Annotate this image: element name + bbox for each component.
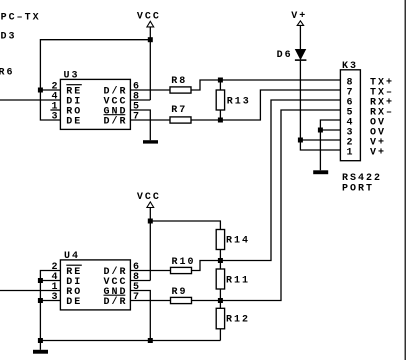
svg-text:DE: DE	[66, 297, 82, 308]
pin number 1	[52, 102, 60, 113]
svg-text:U3: U3	[64, 70, 80, 81]
label U3	[64, 70, 80, 81]
svg-text:V+: V+	[291, 11, 307, 22]
junction U4 DI branch	[38, 278, 43, 283]
pin name D/R pin7	[104, 115, 128, 127]
wire K3 pin 4 OV to ground	[320, 120, 340, 170]
junction R14/R11 node	[218, 258, 223, 263]
pin number 3	[52, 112, 60, 123]
junction R11/R12 node	[218, 298, 223, 303]
junction OV pin3 branch	[318, 128, 323, 133]
wire U4 pin 3 branch	[40, 300, 60, 302]
VCC symbol (lower)	[147, 202, 154, 208]
junction ground rail center	[148, 338, 153, 343]
svg-text:R9: R9	[172, 287, 188, 298]
svg-text:R6: R6	[0, 67, 15, 78]
junction VCC lower node	[148, 219, 153, 224]
label K3	[342, 61, 358, 72]
K3 pin number 1	[347, 147, 355, 158]
pin name RE	[66, 86, 82, 97]
K3 pin label TX–	[370, 87, 394, 98]
svg-text:3: 3	[52, 112, 60, 123]
overline D/R pin7 (U4)	[104, 294, 126, 296]
junction VCC/RE-DE node	[148, 37, 153, 42]
junction TX- / R13 bottom	[218, 118, 223, 123]
pin name RE (U4)	[66, 267, 82, 278]
label RS422	[342, 173, 382, 184]
resistor R8	[170, 87, 191, 93]
wire R8 to TX+ node and K3 pin 8	[191, 80, 340, 90]
wire U4 pin 6 to R10	[130, 270, 170, 272]
wire R14 bottom to R11 top	[219, 250, 221, 270]
svg-text:3: 3	[52, 292, 60, 303]
label R10	[172, 257, 196, 268]
pin number 3 (U4)	[52, 292, 60, 303]
label R13	[227, 97, 251, 108]
wire V+ to D6 anode	[299, 25, 301, 49]
pin name D/R pin6 (U4)	[104, 266, 128, 278]
junction TX+ / R13 top	[218, 78, 223, 83]
pin name D/R pin6	[104, 85, 128, 97]
pin name DI (U4)	[66, 277, 82, 288]
pin name GND pin5	[104, 106, 128, 117]
pin name D/R pin7 (U4)	[104, 296, 128, 308]
junction U4 DE branch	[38, 298, 43, 303]
svg-text:PC–TX: PC–TX	[1, 12, 41, 23]
K3 pin label RX–	[370, 107, 394, 118]
K3 pin label OV	[370, 117, 386, 128]
pin number 5 (U4)	[133, 282, 141, 293]
V+ symbol	[297, 21, 303, 26]
svg-text:V+: V+	[370, 147, 386, 158]
svg-text:7: 7	[133, 292, 141, 303]
schematic frame border (right edge)	[405, 0, 406, 360]
wire RX- from lower R11/R12 node to K3 pin 5	[220, 110, 340, 301]
net label PC-TX	[1, 12, 41, 23]
VCC label (lower)	[137, 192, 161, 203]
junction ground rail left	[38, 338, 43, 343]
pin name DE (U4)	[66, 297, 82, 308]
label R9	[172, 287, 188, 298]
label R12	[226, 315, 250, 326]
K3 pin label V+	[370, 147, 386, 158]
pin name GND pin5 (U4)	[104, 287, 128, 298]
pin number 2 (U4)	[52, 262, 60, 273]
wire U4 pin 4 branch	[40, 280, 60, 282]
svg-text:VCC: VCC	[137, 11, 161, 22]
wire VCC lower rail down to U4 pin 8	[149, 208, 151, 281]
V+ label	[291, 11, 307, 22]
net label R6	[0, 67, 15, 78]
resistor R14	[216, 230, 224, 250]
pin number 4 (U4)	[52, 272, 60, 283]
svg-text:D/R: D/R	[104, 296, 128, 308]
wire RE branch to U3 pin 2	[40, 89, 60, 91]
wire R9 to R11/R12 node	[192, 300, 221, 302]
svg-text:R10: R10	[172, 257, 196, 268]
wire U4 pin 8 VCC stub	[130, 280, 150, 282]
overline RE (U4)	[66, 264, 82, 266]
label PORT	[342, 184, 374, 195]
wire R13 top stub	[219, 80, 221, 90]
label R8	[171, 76, 187, 87]
K3 pin label V+	[370, 137, 386, 148]
wire R11 bottom to R12 top	[219, 289, 221, 308]
pin name DE	[66, 116, 82, 127]
K3 pin number 3	[347, 127, 355, 138]
svg-text:R13: R13	[227, 97, 251, 108]
pin number 5	[133, 102, 141, 113]
wire U3 pin 5 to ground	[130, 110, 150, 140]
svg-text:R7: R7	[171, 105, 187, 116]
K3 pin number 6	[347, 97, 355, 108]
connector K3	[340, 70, 360, 161]
pin name RO	[66, 106, 82, 117]
pin name RO (U4)	[66, 287, 82, 298]
wire U3 pin 1 RO stub	[50, 109, 60, 111]
wire U4 RE/DI/DE tie-down rail	[40, 271, 60, 341]
ground symbol below U3	[143, 140, 158, 143]
wire stub to ground symbol	[39, 341, 41, 350]
junction V+ pin2 branch	[298, 138, 303, 143]
VCC label (top)	[137, 11, 161, 22]
wire U4 pin 5 to ground rail	[130, 291, 150, 341]
wire U3 pin 8 VCC stub	[130, 99, 150, 101]
K3 pin label TX+	[370, 77, 394, 88]
pin number 7 (U4)	[133, 292, 141, 303]
label R11	[226, 276, 250, 287]
op-amp U3 (RS485 transceiver) body	[60, 79, 130, 129]
label D6	[277, 50, 293, 61]
label R14	[226, 236, 250, 247]
diode D6	[295, 49, 307, 60]
wire VCC top rail down to U3 pin 8	[149, 27, 151, 100]
pin name DI	[66, 96, 82, 107]
svg-text:PORT: PORT	[342, 184, 374, 195]
wire DI input from left edge to U3 pin 4	[0, 99, 60, 101]
wire U3 pin 6 to R8	[130, 89, 170, 91]
pin name VCC pin8 (U4)	[104, 277, 128, 288]
label U4	[64, 251, 80, 262]
svg-text:R8: R8	[171, 76, 187, 87]
wire VCC node to RE/DE of U3	[40, 40, 150, 120]
wire R7 to TX- and K3 pin 7	[191, 90, 340, 120]
K3 pin number 2	[347, 137, 355, 148]
label R7	[171, 105, 187, 116]
resistor R12	[216, 308, 224, 329]
K3 pin number 7	[347, 87, 355, 98]
wire R13 bottom stub	[219, 110, 221, 120]
pin number 8 (U4)	[133, 272, 141, 283]
ground symbol for 0V pins	[313, 170, 328, 174]
junction RE branch	[38, 88, 43, 93]
wire U4 pin 7 to R9	[130, 300, 170, 302]
svg-text:D6: D6	[277, 50, 293, 61]
pin number 6	[133, 82, 141, 93]
wire V+ branch to K3 pin 2	[300, 139, 340, 141]
wire D6 cathode down to V+ pins of K3	[300, 61, 340, 150]
wire U4 pin 1 RO from left edge	[0, 290, 60, 292]
resistor R11	[216, 269, 224, 289]
pin number 1 (U4)	[52, 282, 60, 293]
pin number 2	[52, 82, 60, 93]
pin number 4	[52, 92, 60, 103]
wire R10 to R14/R11 node	[192, 261, 221, 271]
pin number 8	[133, 92, 141, 103]
pin name VCC pin8	[104, 96, 128, 107]
K3 pin number 5	[347, 107, 355, 118]
svg-text:DE: DE	[66, 116, 82, 127]
overline RE	[66, 84, 82, 86]
K3 pin label OV	[370, 127, 386, 138]
resistor R9	[171, 297, 192, 303]
resistor R13	[216, 90, 224, 110]
svg-text:R12: R12	[226, 315, 250, 326]
wire VCC node to R14 top	[150, 221, 220, 230]
svg-text:R14: R14	[226, 236, 250, 247]
svg-text:7: 7	[133, 112, 141, 123]
wire ground rail	[40, 340, 220, 342]
svg-text:U4: U4	[64, 251, 80, 262]
svg-text:1: 1	[347, 147, 355, 158]
ground symbol bottom left	[33, 350, 48, 354]
pin number 6 (U4)	[133, 262, 141, 273]
resistor R7	[170, 117, 191, 123]
pin number 7	[133, 112, 141, 123]
svg-text:D3: D3	[1, 31, 17, 42]
resistor R10	[171, 267, 192, 273]
wire U3 pin 7 to R7	[130, 119, 170, 121]
K3 pin number 8	[347, 77, 355, 88]
svg-text:R11: R11	[226, 276, 250, 287]
op-amp U4 (RS485 transceiver) body	[60, 260, 130, 310]
wire OV branch to K3 pin 3	[320, 129, 340, 131]
svg-text:D/R: D/R	[104, 115, 128, 127]
wire RX+ from lower R14/R11 node to K3 pin 6	[220, 100, 340, 261]
net label D3	[1, 31, 17, 42]
K3 pin label RX+	[370, 97, 394, 108]
svg-text:VCC: VCC	[137, 192, 161, 203]
VCC symbol (top)	[147, 21, 154, 27]
overline D/R pin7	[104, 114, 126, 116]
svg-text:RS422: RS422	[342, 173, 382, 184]
K3 pin number 4	[347, 117, 355, 128]
wire R12 bottom to ground rail	[219, 329, 221, 341]
